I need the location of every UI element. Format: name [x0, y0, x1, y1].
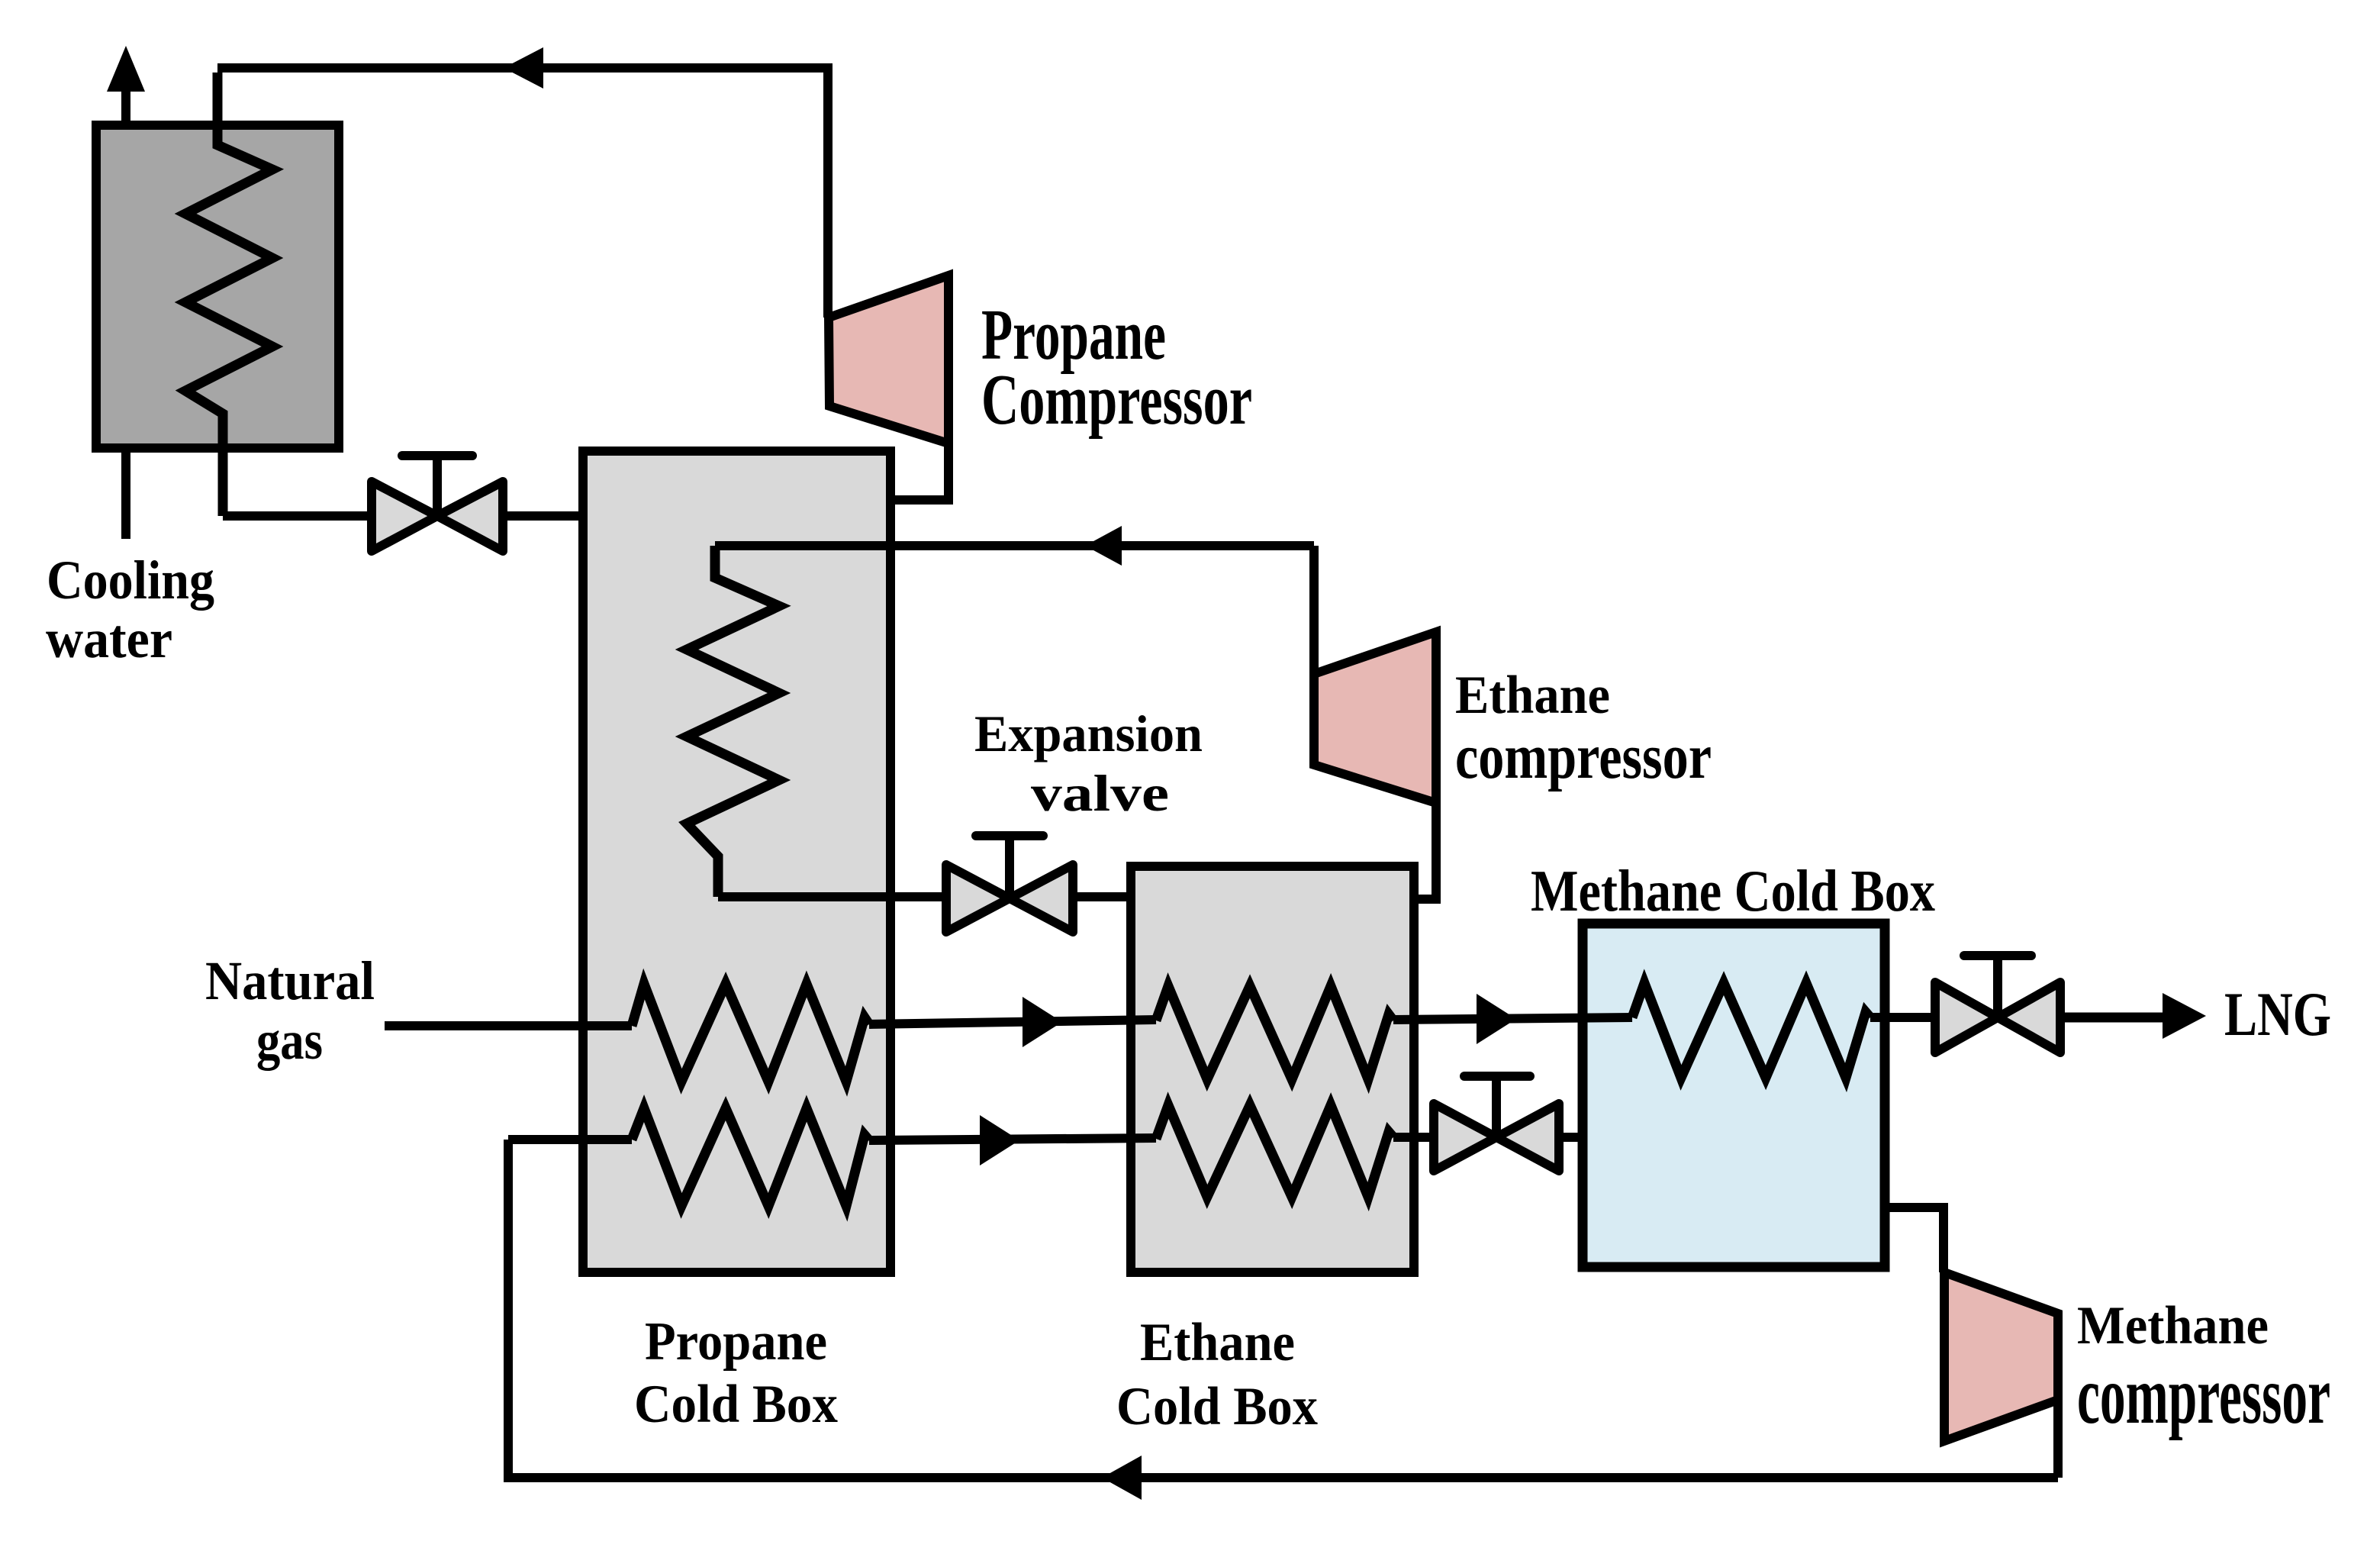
svg-text:water: water: [46, 608, 172, 669]
wire: methane box vapor outlet to methane compressor: [1885, 1207, 1944, 1272]
wire: methane compressor discharge down to bottom return: [2053, 1400, 2063, 1478]
svg-text:Cooling: Cooling: [47, 550, 214, 611]
svg-text:Natural: Natural: [205, 950, 375, 1011]
methane return line from bottom loop into propane box: [508, 1135, 632, 1144]
svg-text:Methane Cold Box: Methane Cold Box: [1531, 858, 1935, 924]
wire: ethane box to methane box (natural gas): [1393, 1017, 1632, 1020]
wire: ethane compressor discharge to propane cold box (ethane return line): [715, 541, 1314, 550]
svg-text:Ethane: Ethane: [1455, 666, 1610, 725]
wire: propane cold box vapor to compressor suction: [890, 443, 948, 500]
valve V1 (propane letdown valve): [372, 456, 503, 551]
svg-text:compressor: compressor: [1455, 721, 1712, 792]
arrowhead on top line (flow to condenser): [504, 47, 543, 89]
wire: ethane compressor discharge down to ethane cold box: [1411, 803, 1436, 899]
arrowhead on bottom return line: [1102, 1456, 1142, 1500]
expansion valve V2: [946, 836, 1073, 932]
svg-text:LNG: LNG: [2224, 979, 2331, 1049]
methane cold box: [1583, 924, 1885, 1267]
svg-text:Cold Box: Cold Box: [1116, 1377, 1318, 1436]
arrowhead natural gas into ethane box: [1023, 997, 1062, 1047]
ethane coil inside propane cold box: [687, 546, 779, 897]
wire: coil outlet to expansion valve: [718, 892, 947, 901]
wire: propane box to ethane box (methane stream): [869, 1138, 1156, 1140]
methane compressor K3: [1944, 1272, 2058, 1441]
valve V4 (LNG letdown valve): [1935, 956, 2060, 1053]
wire: propane box to ethane box (natural gas): [869, 1020, 1156, 1024]
wire: expansion valve to ethane cold box: [1072, 892, 1132, 901]
methane coil inside propane cold box: [632, 1108, 869, 1206]
wire: bottom return line: [508, 1140, 2058, 1478]
arrowhead LNG product: [2163, 993, 2206, 1039]
propane cold box: [583, 451, 890, 1272]
cooling water inlet stub: [121, 448, 130, 539]
natural gas coil inside methane cold box: [1632, 983, 1870, 1078]
natural gas coil inside propane cold box: [632, 984, 869, 1082]
svg-text:Cold Box: Cold Box: [634, 1375, 838, 1434]
svg-text:Propane: Propane: [645, 1312, 827, 1372]
propane compressor K1: [829, 276, 948, 443]
svg-text:Methane: Methane: [2077, 1296, 2269, 1356]
wire: propane compressor discharge to condenser (top line): [217, 68, 828, 318]
svg-text:gas: gas: [256, 1010, 323, 1071]
wire: methane valve to methane cold box: [1559, 1133, 1583, 1142]
svg-text:Ethane: Ethane: [1140, 1313, 1295, 1372]
wire: LNG product line: [2060, 1013, 2171, 1023]
natural gas coil inside ethane cold box: [1156, 986, 1393, 1079]
arrowhead natural gas into methane box: [1477, 994, 1516, 1044]
wire: propane valve to propane cold box: [503, 511, 585, 521]
wire: condenser outlet to propane valve: [223, 511, 372, 521]
svg-text:Expansion: Expansion: [974, 704, 1203, 762]
methane coil inside ethane cold box: [1156, 1105, 1393, 1197]
vent arrowhead: [107, 46, 145, 92]
heat exchanger E1 (cooling-water condenser): [96, 125, 339, 448]
vent line from condenser top: [121, 85, 130, 125]
svg-text:compressor: compressor: [2077, 1350, 2330, 1441]
svg-text:Compressor: Compressor: [981, 360, 1252, 440]
arrowhead on ethane return line: [1085, 526, 1122, 566]
natural gas feed line: [385, 1021, 632, 1030]
wire: methane box to LNG valve: [1870, 1013, 1935, 1022]
condenser coil (propane stream inside E1): [185, 73, 272, 516]
ethane cold box: [1131, 866, 1414, 1272]
wire: down to ethane compressor inlet: [1309, 546, 1319, 674]
arrowhead methane stream into ethane box: [980, 1115, 1019, 1165]
ethane compressor K2: [1314, 632, 1436, 803]
wire: ethane box to methane valve: [1393, 1133, 1434, 1142]
valve V3 (methane letdown valve): [1434, 1076, 1559, 1171]
svg-text:valve: valve: [1031, 764, 1169, 822]
